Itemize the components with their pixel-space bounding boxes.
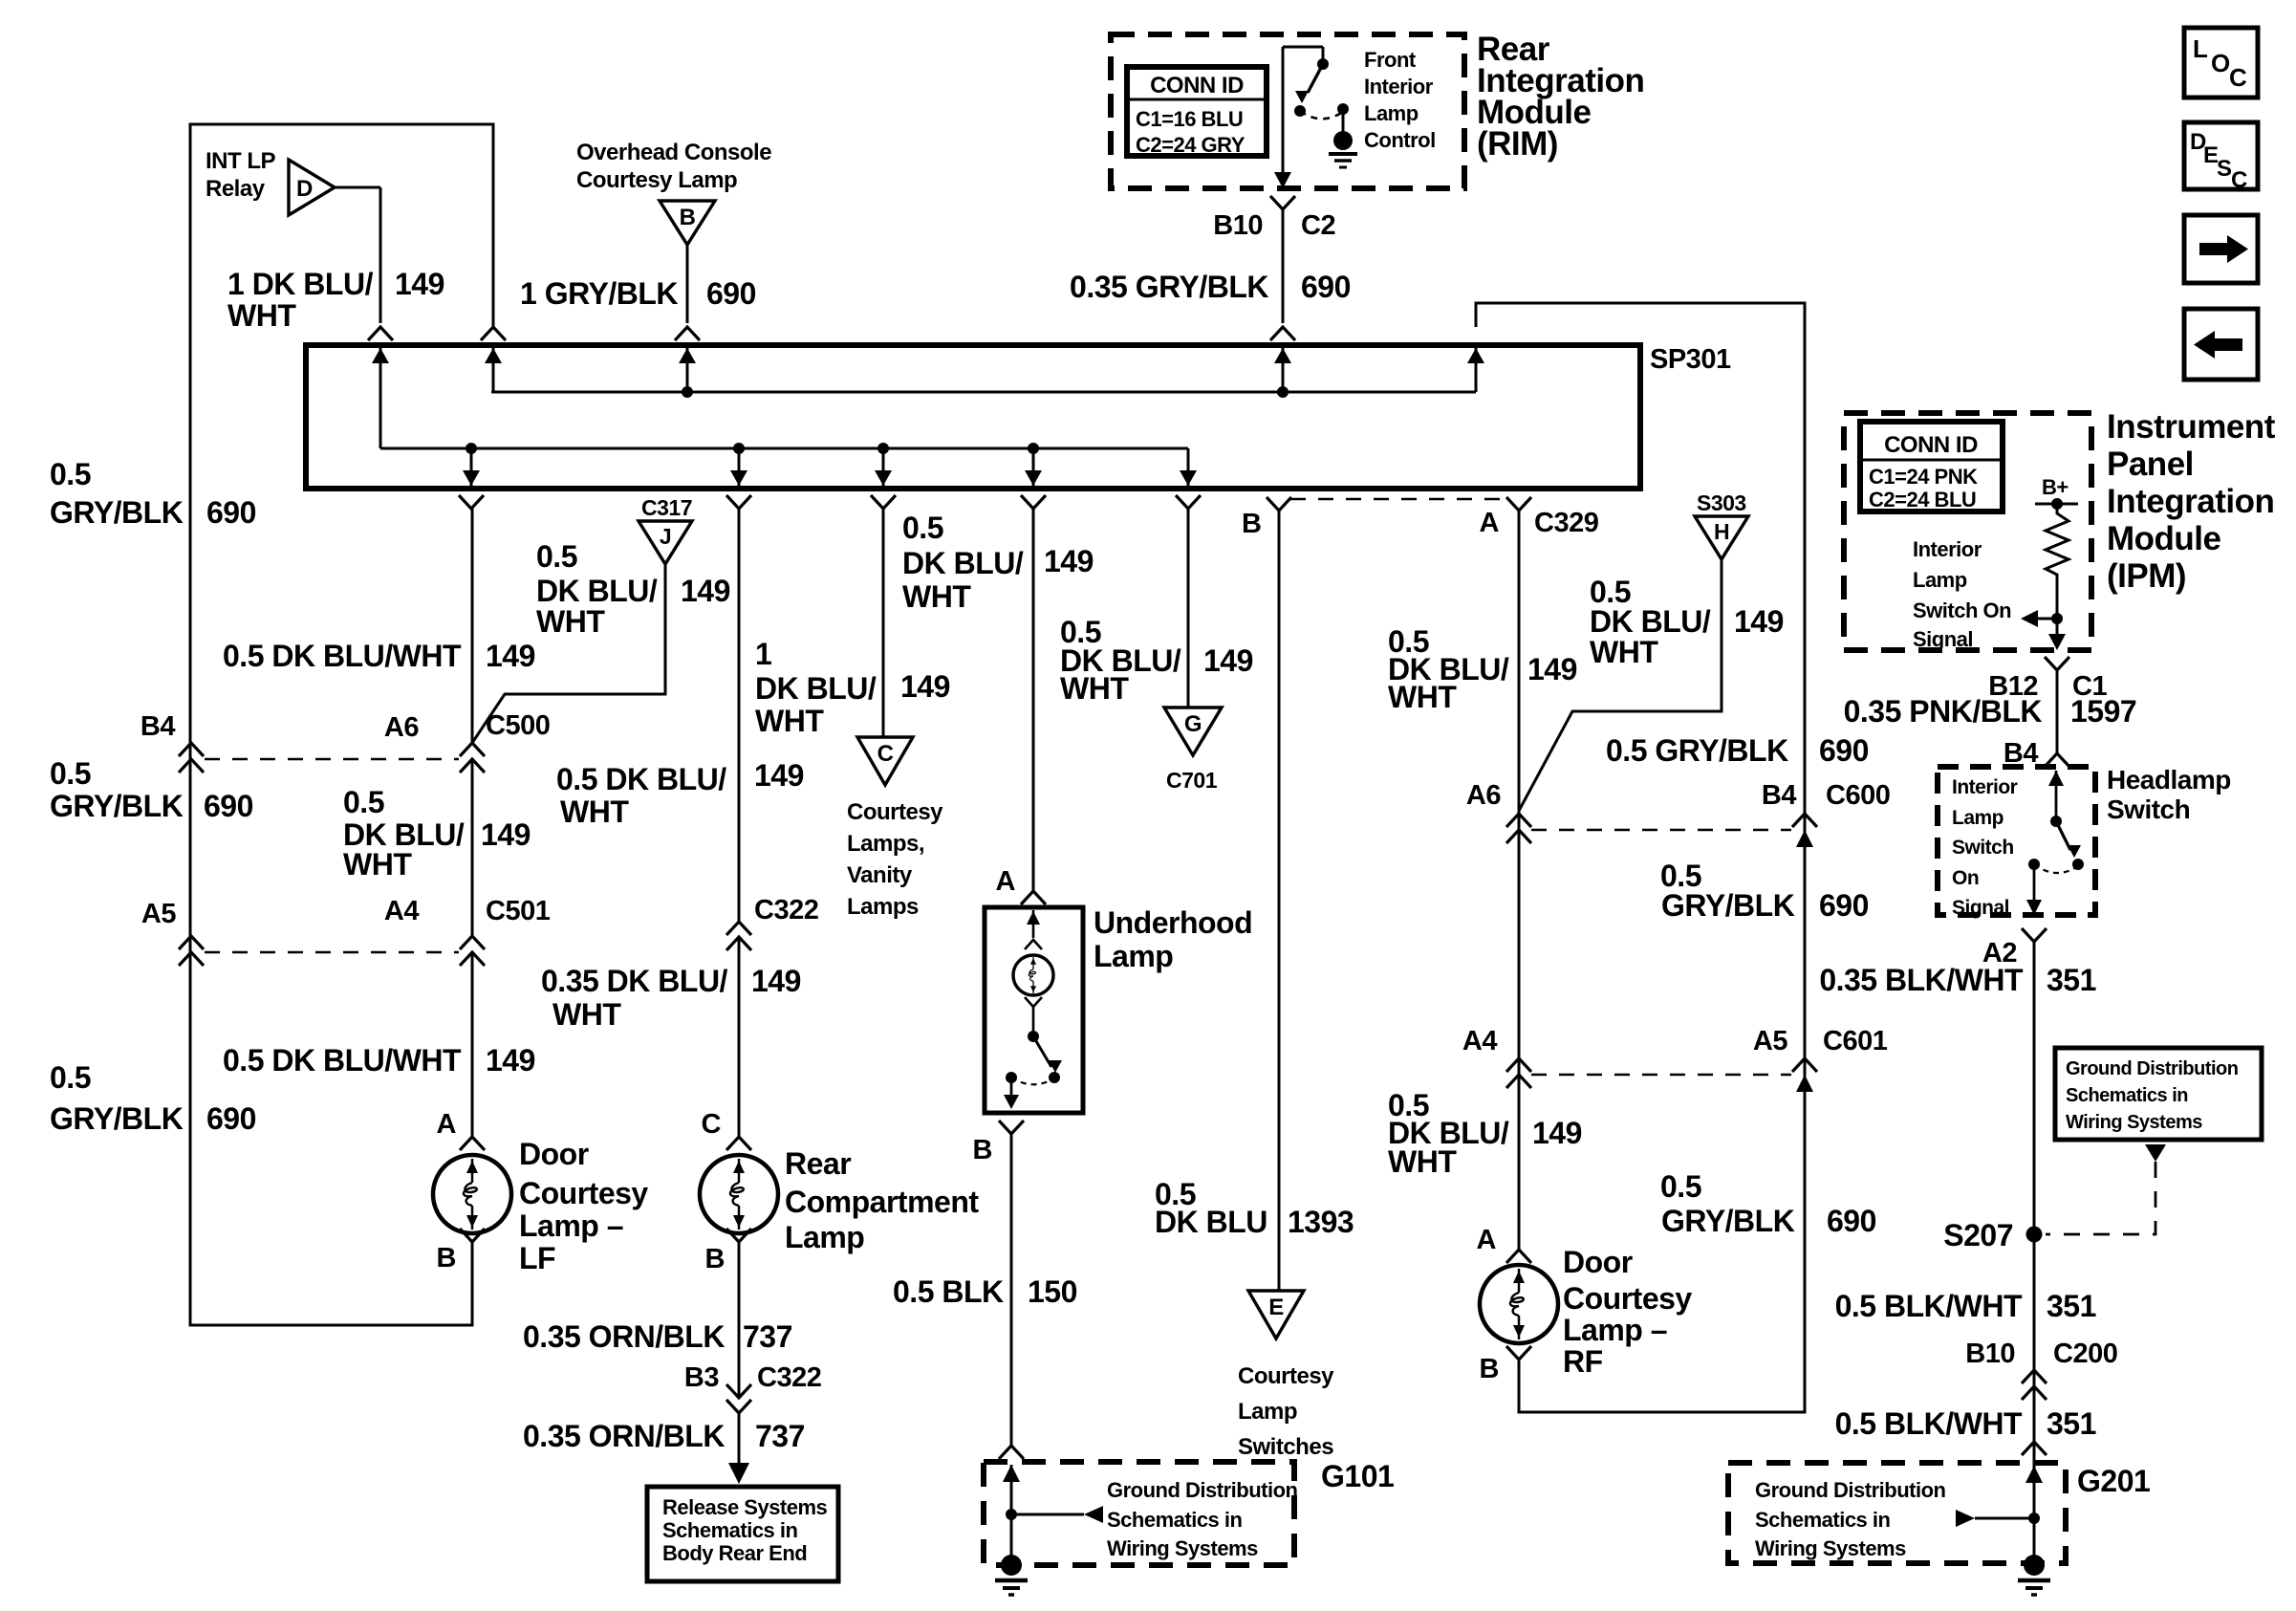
svg-text:LF: LF bbox=[519, 1241, 555, 1275]
G201 internal wire bbox=[2033, 1466, 2036, 1518]
svg-text:Courtesy: Courtesy bbox=[1238, 1363, 1334, 1389]
wire bus to C500 A6 bbox=[471, 509, 474, 743]
svg-text:Compartment: Compartment bbox=[785, 1185, 979, 1219]
svg-text:C: C bbox=[702, 1109, 722, 1140]
svg-text:690: 690 bbox=[206, 495, 256, 530]
svg-text:S: S bbox=[2217, 156, 2232, 182]
svg-text:WHT: WHT bbox=[227, 298, 296, 333]
svg-text:149: 149 bbox=[900, 669, 950, 704]
wire headlamp to G201 bbox=[2033, 942, 2036, 1558]
terminal C chevron rear lamp bbox=[726, 1137, 751, 1150]
svg-text:0.5: 0.5 bbox=[50, 1060, 91, 1095]
wire B to E triangle bbox=[1278, 511, 1281, 1291]
svg-text:351: 351 bbox=[2047, 1406, 2096, 1441]
svg-text:H: H bbox=[1714, 519, 1729, 544]
C500 chevrons A6 side bbox=[460, 743, 485, 756]
svg-text:WHT: WHT bbox=[343, 847, 412, 882]
C500 chevrons B4 side bbox=[179, 743, 204, 756]
svg-text:0.5: 0.5 bbox=[902, 511, 943, 545]
svg-text:WHT: WHT bbox=[755, 704, 824, 738]
connector chevron below bus rear comp wire bbox=[726, 495, 751, 509]
DESC icon box bbox=[2184, 122, 2258, 189]
rail B drop underhood wire bbox=[1032, 448, 1035, 486]
svg-text:Signal: Signal bbox=[1913, 627, 1973, 651]
Underhood Lamp box bbox=[985, 907, 1083, 1113]
svg-text:WHT: WHT bbox=[560, 795, 629, 829]
svg-text:C200: C200 bbox=[2053, 1339, 2117, 1369]
svg-text:A4: A4 bbox=[384, 896, 419, 926]
connector triangle J C317 bbox=[639, 521, 692, 564]
svg-text:B+: B+ bbox=[2042, 475, 2069, 499]
svg-text:C: C bbox=[2229, 63, 2247, 92]
rail A junction overhead wire bbox=[686, 348, 689, 392]
connector chevron below bus underhood wire bbox=[1021, 495, 1046, 509]
svg-text:B10: B10 bbox=[1965, 1339, 2015, 1369]
svg-text:Switch: Switch bbox=[2107, 795, 2190, 824]
svg-text:Module: Module bbox=[2107, 520, 2221, 557]
connector chevron below bus LF wire bbox=[459, 495, 484, 509]
svg-text:C322: C322 bbox=[757, 1362, 821, 1393]
wire H to A6 junction bbox=[1519, 559, 1722, 811]
svg-text:149: 149 bbox=[681, 574, 730, 608]
inline connector C322 upper bbox=[726, 922, 751, 935]
connector chevron RIM wire at bus bbox=[1270, 327, 1295, 340]
svg-text:0.35 ORN/BLK: 0.35 ORN/BLK bbox=[523, 1419, 725, 1453]
svg-text:A6: A6 bbox=[384, 712, 419, 743]
terminal B chevron RF lamp bbox=[1506, 1346, 1531, 1360]
svg-text:351: 351 bbox=[2047, 1289, 2096, 1323]
svg-text:B: B bbox=[437, 1243, 456, 1274]
C329 chevron A side bbox=[1506, 497, 1531, 511]
svg-text:150: 150 bbox=[1028, 1274, 1077, 1309]
svg-text:C: C bbox=[877, 741, 894, 767]
C601 chevron A5 side bbox=[1792, 1058, 1817, 1072]
svg-text:Lamp: Lamp bbox=[785, 1220, 864, 1254]
svg-text:690: 690 bbox=[1819, 888, 1869, 923]
svg-text:Headlamp: Headlamp bbox=[2107, 765, 2231, 795]
connector chevron above G101 bbox=[999, 1446, 1024, 1459]
svg-text:A: A bbox=[437, 1109, 457, 1140]
svg-text:690: 690 bbox=[1819, 733, 1869, 768]
svg-text:DK BLU/: DK BLU/ bbox=[902, 546, 1024, 580]
wire bus to underhood lamp bbox=[1032, 509, 1035, 891]
left loop wire bbox=[190, 124, 493, 1325]
svg-text:L: L bbox=[2193, 34, 2208, 63]
svg-text:149: 149 bbox=[1734, 604, 1784, 639]
svg-text:S207: S207 bbox=[1943, 1218, 2013, 1252]
svg-text:0.5: 0.5 bbox=[50, 457, 91, 491]
svg-text:B3: B3 bbox=[684, 1362, 719, 1393]
svg-text:Body Rear End: Body Rear End bbox=[662, 1541, 807, 1565]
svg-text:690: 690 bbox=[206, 1101, 256, 1136]
C329 chevron B side bbox=[1267, 497, 1291, 511]
svg-text:Rear: Rear bbox=[785, 1146, 851, 1181]
svg-text:0.5 BLK/WHT: 0.5 BLK/WHT bbox=[1835, 1289, 2023, 1323]
svg-text:Wiring Systems: Wiring Systems bbox=[1755, 1536, 1906, 1560]
svg-text:Release Systems: Release Systems bbox=[662, 1495, 828, 1519]
svg-text:149: 149 bbox=[481, 817, 531, 852]
wire IPM out bbox=[2056, 619, 2059, 634]
inline connector C200 bbox=[2022, 1370, 2047, 1383]
Door Courtesy Lamp RF bbox=[1480, 1265, 1558, 1343]
wire lamp B to C322 B3 bbox=[738, 1242, 741, 1398]
svg-text:B: B bbox=[1242, 509, 1261, 539]
bus rail A bbox=[491, 391, 1476, 394]
connector chevron below bus courtesy wire bbox=[871, 495, 896, 509]
right loop wire from bus bbox=[1476, 303, 1805, 1412]
svg-text:0.5 BLK/WHT: 0.5 BLK/WHT bbox=[1835, 1406, 2023, 1441]
svg-text:Interior: Interior bbox=[1952, 776, 2018, 798]
svg-text:Overhead Console: Overhead Console bbox=[576, 140, 771, 165]
wire bus to C322 bbox=[738, 509, 741, 922]
svg-text:Panel: Panel bbox=[2107, 446, 2194, 483]
svg-text:Relay: Relay bbox=[206, 176, 266, 202]
svg-text:WHT: WHT bbox=[1388, 1144, 1457, 1179]
wire to release systems box bbox=[738, 1413, 741, 1465]
svg-text:GRY/BLK: GRY/BLK bbox=[1661, 1204, 1795, 1238]
svg-text:C1=16 BLU: C1=16 BLU bbox=[1136, 107, 1243, 131]
svg-text:690: 690 bbox=[706, 276, 756, 311]
svg-text:C2=24 BLU: C2=24 BLU bbox=[1869, 488, 1976, 512]
svg-text:B4: B4 bbox=[141, 711, 175, 742]
svg-text:WHT: WHT bbox=[1060, 671, 1129, 706]
svg-text:0.5: 0.5 bbox=[536, 539, 577, 574]
svg-text:C1=24 PNK: C1=24 PNK bbox=[1869, 465, 1978, 489]
svg-text:C322: C322 bbox=[754, 895, 818, 925]
svg-text:0.5 BLK: 0.5 BLK bbox=[893, 1274, 1004, 1309]
connector C500 dashed line bbox=[205, 758, 459, 761]
svg-text:D: D bbox=[296, 176, 313, 202]
wire A C329 to RF lamp bbox=[1518, 511, 1521, 1250]
interior lamp switch on signal arrow bbox=[2051, 613, 2063, 624]
svg-text:S303: S303 bbox=[1697, 490, 1746, 515]
svg-text:1 DK BLU/: 1 DK BLU/ bbox=[227, 267, 374, 301]
svg-text:351: 351 bbox=[2047, 963, 2096, 997]
svg-text:Interior: Interior bbox=[1913, 537, 1982, 561]
svg-text:Ground Distribution: Ground Distribution bbox=[1755, 1478, 1946, 1502]
svg-text:0.5 DK BLU/: 0.5 DK BLU/ bbox=[556, 762, 726, 796]
wire C501 to LF lamp bbox=[471, 952, 474, 1137]
svg-text:WHT: WHT bbox=[536, 604, 605, 639]
rail B drop LF lamp wire bbox=[470, 448, 473, 486]
rail B drop rear compartment wire bbox=[738, 448, 741, 486]
svg-text:DK BLU/: DK BLU/ bbox=[1590, 604, 1711, 639]
svg-text:G201: G201 bbox=[2077, 1464, 2150, 1498]
svg-text:Control: Control bbox=[1364, 128, 1436, 152]
wire relay D to SP301 bus bbox=[335, 186, 380, 189]
svg-text:Lamp: Lamp bbox=[1364, 101, 1419, 125]
RIM switch ground bbox=[1333, 131, 1353, 150]
svg-text:B: B bbox=[705, 1244, 725, 1274]
svg-text:CONN ID: CONN ID bbox=[1884, 432, 1978, 458]
rail B drop from relay wire bbox=[379, 348, 382, 448]
svg-text:Instrument: Instrument bbox=[2107, 408, 2276, 446]
svg-text:A4: A4 bbox=[1462, 1026, 1497, 1056]
connector chevron B4 headlamp bbox=[2045, 753, 2069, 767]
svg-text:SP301: SP301 bbox=[1650, 344, 1731, 375]
svg-text:0.5: 0.5 bbox=[343, 785, 384, 819]
rail B end drop C701 wire bbox=[1187, 448, 1190, 486]
svg-text:737: 737 bbox=[755, 1419, 805, 1453]
wire C322 to lamp C bbox=[738, 937, 741, 1137]
svg-text:149: 149 bbox=[1527, 652, 1577, 686]
G201 ground symbol bbox=[2024, 1555, 2045, 1576]
svg-text:RF: RF bbox=[1563, 1344, 1603, 1379]
connector C501 dashed line bbox=[205, 951, 459, 954]
svg-text:Door: Door bbox=[519, 1137, 589, 1171]
svg-text:A5: A5 bbox=[141, 899, 176, 929]
svg-text:A: A bbox=[1480, 508, 1500, 538]
wire J to A6 junction bbox=[472, 564, 665, 743]
svg-text:Schematics in: Schematics in bbox=[1755, 1508, 1891, 1532]
RIM CONN ID table bbox=[1127, 67, 1267, 156]
relay output triangle D bbox=[289, 160, 335, 215]
Rear Compartment Lamp bbox=[700, 1155, 778, 1233]
svg-text:Signal: Signal bbox=[1952, 897, 2009, 919]
svg-text:B4: B4 bbox=[1762, 780, 1796, 811]
svg-text:DK BLU: DK BLU bbox=[1155, 1205, 1267, 1239]
svg-text:G: G bbox=[1184, 711, 1202, 737]
connector C600 dashed line bbox=[1531, 829, 1791, 832]
svg-text:1 GRY/BLK: 1 GRY/BLK bbox=[520, 276, 678, 311]
svg-text:WHT: WHT bbox=[1590, 635, 1658, 669]
svg-text:0.35 DK BLU/: 0.35 DK BLU/ bbox=[541, 964, 728, 998]
svg-text:CONN ID: CONN ID bbox=[1150, 73, 1244, 98]
svg-text:G101: G101 bbox=[1321, 1459, 1394, 1493]
svg-text:GRY/BLK: GRY/BLK bbox=[50, 789, 184, 823]
connector C601 dashed line bbox=[1531, 1074, 1791, 1077]
svg-text:C601: C601 bbox=[1823, 1026, 1888, 1056]
svg-text:149: 149 bbox=[1044, 544, 1094, 578]
svg-text:(IPM): (IPM) bbox=[2107, 557, 2186, 595]
svg-text:Integration: Integration bbox=[2107, 483, 2274, 520]
Rear Integration Module dashed box bbox=[1111, 34, 1464, 188]
svg-text:0.35 PNK/BLK: 0.35 PNK/BLK bbox=[1844, 694, 2043, 729]
connector chevron A2 bbox=[2022, 928, 2047, 942]
svg-text:INT LP: INT LP bbox=[206, 148, 275, 174]
svg-text:Door: Door bbox=[1563, 1245, 1633, 1279]
wire bus to triangle C bbox=[882, 509, 885, 737]
svg-text:A5: A5 bbox=[1753, 1026, 1787, 1056]
rail A drop from left loop bbox=[492, 348, 495, 392]
wire RIM B10 to bus bbox=[1282, 47, 1285, 172]
svg-text:0.5: 0.5 bbox=[50, 756, 91, 791]
IPM dashed box bbox=[1844, 413, 2091, 650]
svg-text:C501: C501 bbox=[486, 896, 551, 926]
inline connector C322 B3 bbox=[726, 1384, 751, 1398]
terminal A chevron LF lamp bbox=[460, 1137, 485, 1150]
svg-text:Underhood: Underhood bbox=[1094, 905, 1252, 940]
svg-text:C701: C701 bbox=[1166, 768, 1218, 793]
svg-text:C2=24 GRY: C2=24 GRY bbox=[1136, 133, 1245, 157]
svg-text:0.5 GRY/BLK: 0.5 GRY/BLK bbox=[1606, 733, 1788, 768]
svg-text:B: B bbox=[1480, 1354, 1499, 1384]
svg-text:149: 149 bbox=[486, 1043, 535, 1078]
terminal B chevron LF lamp bbox=[460, 1229, 485, 1242]
svg-text:0.5: 0.5 bbox=[1660, 1169, 1701, 1204]
svg-text:GRY/BLK: GRY/BLK bbox=[50, 1101, 184, 1136]
svg-text:Schematics in: Schematics in bbox=[1107, 1508, 1243, 1532]
connector chevron above G201 bbox=[2022, 1442, 2047, 1455]
svg-text:Lamp: Lamp bbox=[1952, 807, 2004, 829]
connector chevron overhead wire at bus bbox=[675, 327, 700, 340]
terminal A chevron underhood bbox=[1021, 891, 1046, 904]
svg-text:149: 149 bbox=[486, 639, 535, 673]
Headlamp Switch dashed box bbox=[1938, 767, 2095, 915]
svg-text:Front: Front bbox=[1364, 48, 1417, 72]
splice S207 bbox=[2026, 1227, 2043, 1243]
svg-text:Lamps,: Lamps, bbox=[847, 831, 924, 857]
headlamp switch internals bbox=[2055, 771, 2058, 821]
next-page arrow icon box bbox=[2184, 215, 2258, 283]
svg-text:1597: 1597 bbox=[2070, 694, 2136, 729]
connector triangle C bbox=[857, 737, 913, 785]
G201 ground dashed box bbox=[1728, 1463, 2066, 1563]
svg-text:Courtesy: Courtesy bbox=[1563, 1281, 1692, 1316]
terminal A chevron RF lamp bbox=[1506, 1250, 1531, 1263]
svg-text:GRY/BLK: GRY/BLK bbox=[1661, 888, 1795, 923]
svg-text:O: O bbox=[2211, 49, 2230, 77]
terminal B chevron underhood bbox=[999, 1121, 1024, 1134]
svg-text:1393: 1393 bbox=[1288, 1205, 1354, 1239]
svg-text:1: 1 bbox=[755, 637, 771, 671]
wire C500 to C501 bbox=[471, 759, 474, 935]
svg-text:149: 149 bbox=[395, 267, 444, 301]
svg-text:0.35 GRY/BLK: 0.35 GRY/BLK bbox=[1070, 270, 1268, 304]
svg-text:Ground Distribution: Ground Distribution bbox=[1107, 1478, 1298, 1502]
svg-text:Lamp: Lamp bbox=[1094, 939, 1173, 973]
svg-text:C500: C500 bbox=[486, 710, 550, 741]
svg-text:On: On bbox=[1952, 867, 1979, 889]
svg-text:Switch: Switch bbox=[1952, 837, 2014, 859]
svg-text:Vanity: Vanity bbox=[847, 862, 913, 888]
svg-text:A: A bbox=[1477, 1225, 1497, 1255]
G101 ground dashed box bbox=[984, 1462, 1294, 1565]
svg-text:DK BLU/: DK BLU/ bbox=[755, 671, 877, 706]
connector C329 dashed line bbox=[1290, 498, 1508, 501]
svg-text:(RIM): (RIM) bbox=[1477, 125, 1558, 163]
svg-text:J: J bbox=[660, 524, 671, 549]
svg-text:Schematics in: Schematics in bbox=[2066, 1085, 2188, 1106]
svg-text:Schematics in: Schematics in bbox=[662, 1518, 798, 1542]
svg-text:690: 690 bbox=[1301, 270, 1351, 304]
svg-text:C329: C329 bbox=[1534, 508, 1599, 538]
svg-text:B10: B10 bbox=[1213, 210, 1263, 241]
C601 chevrons A4 side bbox=[1506, 1058, 1531, 1072]
underhood lamp internals bbox=[1032, 910, 1035, 938]
svg-text:A: A bbox=[996, 866, 1016, 897]
svg-text:A6: A6 bbox=[1466, 780, 1501, 811]
wire underhood to G101 bbox=[1010, 1134, 1013, 1446]
svg-text:Switch On: Switch On bbox=[1913, 599, 2011, 622]
svg-text:WHT: WHT bbox=[552, 997, 621, 1032]
connector chevron below bus C701 wire bbox=[1176, 495, 1201, 509]
overhead console triangle B bbox=[660, 201, 715, 245]
svg-text:149: 149 bbox=[751, 964, 801, 998]
reference arrow below box bbox=[2145, 1144, 2166, 1162]
svg-text:WHT: WHT bbox=[902, 579, 971, 614]
IPM CONN ID table bbox=[1860, 422, 2003, 512]
connector triangle G bbox=[1164, 708, 1222, 755]
svg-text:WHT: WHT bbox=[1388, 680, 1457, 714]
connector triangle H S303 bbox=[1695, 516, 1748, 559]
bus rail B bbox=[380, 447, 1188, 450]
svg-text:B: B bbox=[973, 1135, 992, 1165]
terminal B chevron rear lamp bbox=[726, 1229, 751, 1242]
rail A exit to right loop bbox=[1475, 348, 1478, 392]
svg-text:C: C bbox=[2231, 167, 2247, 193]
wire overhead console to bus bbox=[686, 245, 689, 323]
svg-text:0.5 DK BLU/WHT: 0.5 DK BLU/WHT bbox=[223, 1043, 462, 1078]
rail A junction RIM wire bbox=[1282, 348, 1285, 392]
wire IPM to headlamp switch bbox=[2056, 670, 2059, 753]
C501 chevrons A4 side bbox=[460, 936, 485, 949]
dashed link S207 to reference box bbox=[2046, 1162, 2155, 1234]
svg-text:149: 149 bbox=[754, 758, 804, 793]
svg-text:B: B bbox=[680, 205, 696, 230]
svg-text:C317: C317 bbox=[641, 495, 692, 520]
svg-text:0.35 ORN/BLK: 0.35 ORN/BLK bbox=[523, 1319, 725, 1354]
resistor bbox=[2046, 504, 2069, 619]
RIM front interior lamp control switch bbox=[1283, 46, 1323, 49]
Release Systems reference box bbox=[647, 1487, 838, 1581]
svg-text:Courtesy: Courtesy bbox=[847, 799, 943, 825]
rail B drop courtesy lamps wire bbox=[882, 448, 885, 486]
svg-text:690: 690 bbox=[1827, 1204, 1876, 1238]
svg-text:Ground Distribution: Ground Distribution bbox=[2066, 1058, 2238, 1079]
svg-text:Lamp –: Lamp – bbox=[1563, 1313, 1667, 1347]
Ground Distribution reference box (right) bbox=[2055, 1048, 2262, 1140]
svg-text:C600: C600 bbox=[1826, 780, 1890, 811]
svg-text:Lamp –: Lamp – bbox=[519, 1208, 623, 1243]
connector triangle E bbox=[1248, 1291, 1304, 1339]
svg-text:GRY/BLK: GRY/BLK bbox=[50, 495, 184, 530]
svg-text:737: 737 bbox=[743, 1319, 792, 1354]
wire bus to triangle G bbox=[1187, 509, 1190, 708]
svg-text:Lamps: Lamps bbox=[847, 894, 919, 920]
svg-text:690: 690 bbox=[204, 789, 253, 823]
svg-text:Courtesy Lamp: Courtesy Lamp bbox=[576, 167, 737, 193]
G101 internal wire bbox=[1010, 1465, 1013, 1514]
svg-text:149: 149 bbox=[1532, 1116, 1582, 1150]
svg-text:E: E bbox=[1268, 1295, 1284, 1320]
B+ feed and junction bbox=[2035, 503, 2078, 506]
svg-text:C2: C2 bbox=[1301, 210, 1335, 241]
C600 chevron B4 side bbox=[1792, 814, 1817, 827]
splice pack SP301 box bbox=[306, 345, 1640, 489]
svg-text:Lamp: Lamp bbox=[1913, 568, 1967, 592]
svg-text:149: 149 bbox=[1203, 643, 1253, 678]
prev-page arrow icon box bbox=[2184, 309, 2258, 380]
svg-text:Interior: Interior bbox=[1364, 75, 1434, 98]
svg-text:0.5 DK BLU/WHT: 0.5 DK BLU/WHT bbox=[223, 639, 462, 673]
svg-text:Switches: Switches bbox=[1238, 1434, 1333, 1460]
svg-text:Courtesy: Courtesy bbox=[519, 1176, 648, 1210]
svg-text:DK BLU/: DK BLU/ bbox=[536, 574, 658, 608]
C600 chevrons A6 side bbox=[1506, 814, 1531, 827]
connector chevron relay wire at bus bbox=[368, 327, 393, 340]
svg-text:Lamp: Lamp bbox=[1238, 1399, 1297, 1425]
LOC icon box bbox=[2184, 28, 2258, 98]
G101 ground symbol bbox=[1010, 1514, 1013, 1558]
svg-text:0.35 BLK/WHT: 0.35 BLK/WHT bbox=[1819, 963, 2024, 997]
C501 chevrons A5 side bbox=[179, 936, 204, 949]
svg-text:Wiring Systems: Wiring Systems bbox=[1107, 1536, 1258, 1560]
svg-text:Wiring Systems: Wiring Systems bbox=[2066, 1112, 2202, 1133]
Door Courtesy Lamp LF bbox=[433, 1155, 511, 1233]
connector chevron left loop at bus bbox=[481, 327, 506, 340]
